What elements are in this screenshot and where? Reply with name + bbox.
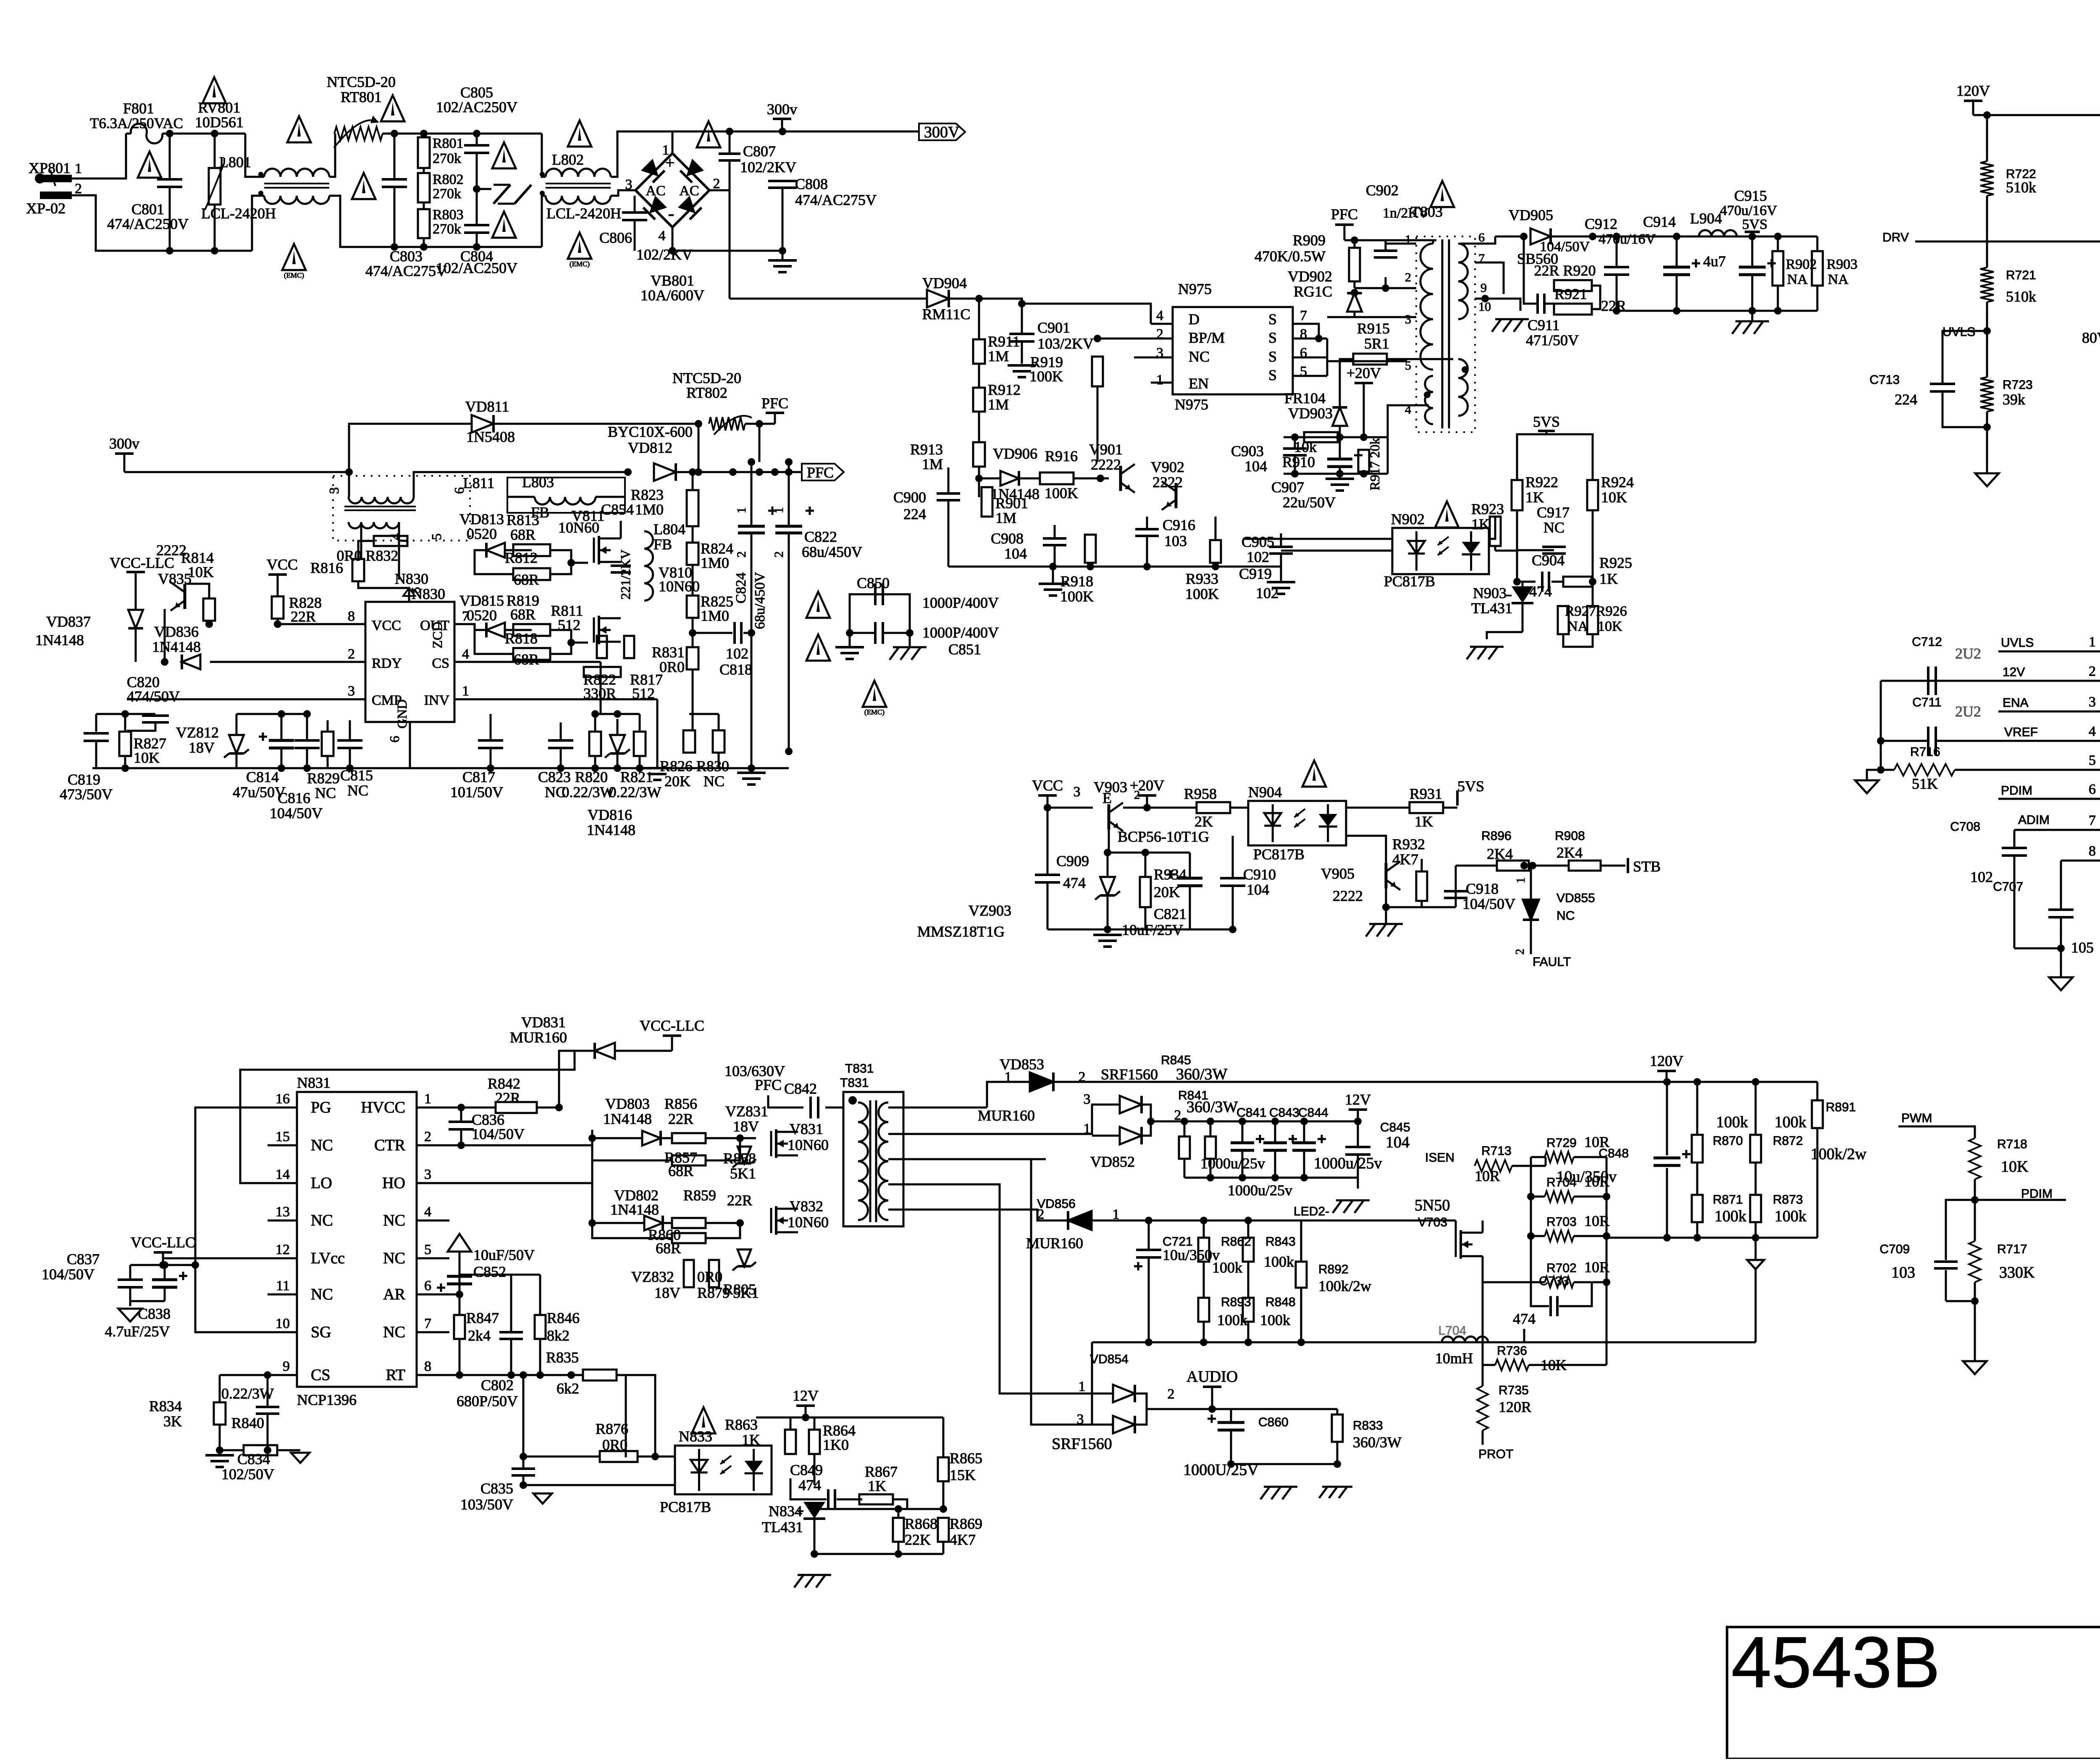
svg-text:2: 2 [424, 1129, 431, 1144]
svg-text:224: 224 [903, 506, 926, 522]
svg-text:L801: L801 [219, 154, 251, 171]
svg-text:120R: 120R [1499, 1399, 1531, 1415]
svg-text:NTC5D-20: NTC5D-20 [327, 73, 396, 90]
svg-text:2: 2 [2089, 664, 2096, 679]
svg-text:6: 6 [1478, 231, 1485, 244]
svg-text:1K: 1K [1599, 570, 1618, 587]
svg-text:R916: R916 [1045, 448, 1078, 465]
svg-text:474/50V: 474/50V [127, 688, 180, 705]
svg-text:C851: C851 [948, 641, 981, 658]
svg-text:LED2-: LED2- [1294, 1205, 1329, 1218]
svg-text:BYC10X-600: BYC10X-600 [608, 423, 693, 440]
svg-text:R840: R840 [231, 1415, 264, 1431]
svg-text:L802: L802 [552, 151, 584, 168]
svg-text:1M0: 1M0 [701, 554, 729, 571]
svg-text:R858: R858 [723, 1150, 756, 1167]
svg-text:R831: R831 [652, 644, 685, 661]
svg-text:R736: R736 [1497, 1344, 1527, 1358]
svg-text:R812: R812 [505, 549, 538, 566]
svg-text:BCP56-10T1G: BCP56-10T1G [1118, 828, 1209, 845]
svg-text:NC: NC [1557, 909, 1575, 923]
svg-text:5VS: 5VS [1457, 778, 1484, 795]
svg-text:VD815: VD815 [459, 592, 504, 609]
svg-text:PDIM: PDIM [2021, 1187, 2053, 1201]
svg-text:270k: 270k [433, 221, 461, 237]
svg-text:270k: 270k [433, 151, 461, 166]
svg-text:R931: R931 [1410, 785, 1442, 802]
svg-text:100k/2w: 100k/2w [1318, 1278, 1371, 1294]
svg-text:473/50V: 473/50V [60, 786, 113, 803]
svg-text:UVLS: UVLS [2001, 636, 2034, 650]
svg-text:EN: EN [1189, 375, 1209, 392]
svg-text:4543B: 4543B [1731, 1622, 1940, 1703]
svg-text:14: 14 [276, 1167, 290, 1182]
svg-text:R826: R826 [660, 758, 693, 774]
svg-text:V832: V832 [790, 1198, 823, 1215]
svg-text:104/50V: 104/50V [42, 1266, 94, 1283]
svg-text:RM11C: RM11C [922, 306, 971, 323]
svg-text:0R0: 0R0 [659, 659, 685, 675]
svg-text:20K: 20K [664, 773, 690, 790]
svg-text:100k: 100k [1774, 1113, 1806, 1131]
svg-text:VCC-LLC: VCC-LLC [640, 1017, 704, 1034]
svg-text:1M0: 1M0 [701, 607, 729, 624]
svg-text:5R1: 5R1 [1364, 335, 1389, 352]
svg-text:5VS: 5VS [1742, 217, 1767, 232]
svg-text:(EMC): (EMC) [284, 271, 304, 279]
svg-text:1000u/25v: 1000u/25v [1314, 1155, 1382, 1172]
svg-text:NC: NC [347, 782, 368, 799]
svg-text:2222: 2222 [1152, 474, 1183, 491]
svg-text:39k: 39k [2003, 391, 2025, 408]
svg-text:R718: R718 [1997, 1137, 2027, 1151]
svg-text:100k: 100k [1212, 1259, 1242, 1276]
svg-text:300V: 300V [924, 123, 960, 141]
svg-text:R847: R847 [466, 1310, 499, 1326]
svg-text:1M: 1M [922, 456, 943, 472]
svg-text:0R0: 0R0 [697, 1268, 722, 1285]
svg-text:FR104: FR104 [1284, 390, 1326, 407]
svg-text:INV: INV [424, 693, 450, 708]
svg-text:BP/M: BP/M [1189, 329, 1225, 346]
svg-text:HO: HO [382, 1174, 405, 1192]
svg-text:VD904: VD904 [922, 275, 967, 291]
svg-text:68R: 68R [514, 651, 539, 668]
svg-text:2: 2 [713, 176, 720, 192]
svg-text:18V: 18V [654, 1284, 680, 1301]
svg-text:1K0: 1K0 [823, 1436, 849, 1453]
svg-text:3: 3 [2089, 694, 2096, 710]
svg-text:2k4: 2k4 [468, 1327, 491, 1344]
svg-text:C835: C835 [480, 1480, 513, 1497]
svg-text:224: 224 [1895, 391, 1917, 408]
svg-text:C852: C852 [473, 1263, 506, 1280]
svg-text:C819: C819 [68, 771, 100, 788]
svg-text:10k: 10k [1294, 438, 1317, 455]
svg-text:22R: 22R [727, 1192, 752, 1209]
svg-text:R925: R925 [1599, 554, 1632, 571]
svg-text:C837: C837 [67, 1251, 100, 1268]
svg-text:VCC: VCC [372, 618, 401, 633]
svg-text:1: 1 [1515, 877, 1528, 883]
svg-text:VD854: VD854 [1090, 1352, 1129, 1366]
svg-text:10u/350v: 10u/350v [1163, 1247, 1220, 1263]
svg-text:104: 104 [1386, 1134, 1410, 1151]
svg-text:5K1: 5K1 [730, 1165, 756, 1182]
svg-text:10K: 10K [1601, 489, 1627, 506]
svg-text:NC: NC [311, 1286, 333, 1303]
svg-text:C707: C707 [1993, 880, 2023, 894]
svg-text:R876: R876 [596, 1420, 628, 1437]
svg-text:5: 5 [429, 533, 444, 540]
svg-text:L704: L704 [1438, 1324, 1467, 1338]
svg-text:VZ903: VZ903 [969, 902, 1011, 919]
svg-text:C919: C919 [1239, 565, 1272, 582]
svg-text:CS: CS [311, 1366, 330, 1384]
svg-text:E: E [1102, 790, 1112, 806]
svg-text:4u7: 4u7 [1703, 253, 1726, 270]
svg-text:R803: R803 [433, 207, 464, 223]
svg-text:102/AC250V: 102/AC250V [436, 99, 517, 115]
svg-text:C860: C860 [1258, 1415, 1289, 1429]
svg-text:RT: RT [386, 1366, 405, 1384]
svg-text:3: 3 [625, 177, 633, 192]
svg-text:3: 3 [1074, 784, 1081, 800]
svg-text:C834: C834 [237, 1451, 270, 1467]
svg-text:68R: 68R [668, 1163, 693, 1179]
svg-text:R869: R869 [950, 1515, 982, 1532]
svg-text:4: 4 [1156, 308, 1163, 323]
svg-text:1M: 1M [988, 396, 1009, 413]
svg-text:C909: C909 [1056, 853, 1089, 869]
svg-text:C905: C905 [1242, 533, 1274, 550]
svg-text:N902: N902 [1391, 511, 1425, 528]
svg-text:NC: NC [383, 1249, 405, 1267]
svg-text:-: - [668, 203, 675, 224]
svg-text:1N4148: 1N4148 [587, 821, 635, 838]
svg-text:R802: R802 [433, 172, 464, 187]
svg-text:474/AC275V: 474/AC275V [365, 262, 447, 279]
svg-text:1: 1 [2089, 634, 2096, 650]
svg-text:7: 7 [424, 1316, 431, 1331]
svg-text:C823: C823 [538, 769, 571, 785]
svg-text:PFC: PFC [807, 464, 834, 481]
svg-text:8: 8 [348, 609, 355, 624]
svg-text:R723: R723 [2003, 378, 2033, 392]
svg-text:VZ812: VZ812 [176, 724, 219, 741]
svg-text:6: 6 [2089, 782, 2096, 797]
svg-text:4.7uF/25V: 4.7uF/25V [105, 1323, 170, 1340]
svg-text:3: 3 [326, 487, 341, 494]
svg-text:VZ831: VZ831 [725, 1103, 768, 1120]
svg-text:S: S [1268, 329, 1277, 346]
svg-text:103: 103 [1164, 533, 1187, 549]
svg-text:C712: C712 [1912, 635, 1942, 649]
svg-text:103/50V: 103/50V [460, 1496, 513, 1513]
svg-text:C822: C822 [804, 528, 837, 545]
svg-text:68R: 68R [656, 1240, 681, 1257]
svg-text:1000u/25v: 1000u/25v [1228, 1182, 1292, 1199]
svg-text:R818: R818 [505, 630, 538, 647]
svg-text:C914: C914 [1643, 213, 1676, 230]
svg-text:S: S [1268, 348, 1277, 365]
svg-text:AUDIO: AUDIO [1186, 1368, 1238, 1386]
svg-text:T831: T831 [845, 1062, 874, 1076]
svg-text:100k: 100k [1716, 1113, 1748, 1131]
svg-text:10R: 10R [1584, 1134, 1609, 1150]
svg-text:RDY: RDY [372, 656, 402, 671]
svg-text:RG1C: RG1C [1294, 283, 1332, 300]
svg-text:100k: 100k [1714, 1207, 1746, 1225]
svg-text:1: 1 [772, 507, 786, 514]
svg-text:6: 6 [424, 1278, 431, 1294]
svg-text:2: 2 [75, 181, 82, 197]
svg-text:0.22/3W: 0.22/3W [221, 1385, 274, 1402]
svg-text:R923: R923 [1471, 501, 1504, 517]
svg-text:330K: 330K [1999, 1264, 2035, 1281]
svg-text:C821: C821 [1154, 905, 1186, 922]
svg-text:1: 1 [735, 507, 748, 514]
svg-text:270k: 270k [433, 186, 461, 202]
svg-text:LCL-2420H: LCL-2420H [546, 205, 621, 222]
svg-text:VCC-LLC: VCC-LLC [131, 1234, 195, 1251]
svg-text:AC: AC [679, 183, 699, 199]
svg-text:R903: R903 [1827, 257, 1858, 272]
svg-text:R833: R833 [1353, 1419, 1383, 1433]
svg-text:474: 474 [1063, 874, 1086, 891]
svg-text:C815: C815 [340, 767, 373, 784]
svg-text:C903: C903 [1231, 443, 1264, 459]
svg-text:4K7: 4K7 [950, 1531, 976, 1548]
svg-text:R721: R721 [2006, 268, 2036, 282]
svg-text:XP-02: XP-02 [26, 200, 66, 217]
svg-text:V901: V901 [1089, 441, 1123, 458]
svg-text:22u/50V: 22u/50V [1283, 494, 1336, 511]
svg-text:470u/16V: 470u/16V [1599, 231, 1656, 247]
svg-text:ENA: ENA [2003, 696, 2029, 710]
svg-text:R896: R896 [1481, 829, 1512, 843]
svg-text:10mH: 10mH [1435, 1350, 1473, 1367]
svg-text:RT801: RT801 [341, 89, 382, 105]
svg-text:V703: V703 [1418, 1215, 1447, 1229]
svg-text:T6.3A/250VAC: T6.3A/250VAC [90, 115, 183, 131]
svg-text:1: 1 [462, 683, 469, 699]
svg-text:1N5408: 1N5408 [466, 428, 515, 445]
svg-text:N975: N975 [1175, 396, 1208, 413]
svg-text:1K: 1K [742, 1431, 760, 1448]
svg-text:PC817B: PC817B [1253, 846, 1305, 863]
svg-text:VREF: VREF [2004, 725, 2038, 739]
svg-text:(EMC): (EMC) [570, 260, 590, 268]
svg-text:R703: R703 [1546, 1215, 1577, 1229]
svg-text:VD837: VD837 [46, 613, 91, 630]
svg-text:102/2KV: 102/2KV [740, 159, 796, 176]
svg-text:512: 512 [558, 617, 580, 633]
svg-text:22R: 22R [291, 608, 316, 625]
svg-text:RT802: RT802 [686, 384, 727, 401]
svg-text:22R R920: 22R R920 [1534, 262, 1596, 279]
svg-text:+20V: +20V [1347, 365, 1381, 381]
svg-text:C708: C708 [1950, 820, 1980, 834]
svg-text:R891: R891 [1826, 1100, 1856, 1114]
svg-text:NA: NA [1787, 272, 1808, 287]
svg-text:C843: C843 [1269, 1106, 1299, 1120]
svg-text:C818: C818 [719, 661, 752, 678]
svg-text:5VS: 5VS [1533, 413, 1560, 430]
svg-text:N830: N830 [395, 570, 428, 587]
svg-text:2: 2 [1405, 270, 1411, 284]
svg-text:R873: R873 [1773, 1193, 1803, 1207]
svg-text:MMSZ18T1G: MMSZ18T1G [917, 923, 1005, 940]
svg-text:360/3W: 360/3W [1176, 1066, 1228, 1083]
svg-text:NC: NC [383, 1323, 405, 1341]
svg-text:N833: N833 [679, 1428, 712, 1445]
svg-text:5: 5 [2089, 753, 2096, 768]
svg-text:C845: C845 [1380, 1121, 1410, 1134]
svg-text:C807: C807 [743, 143, 776, 160]
svg-text:120V: 120V [1650, 1052, 1683, 1069]
svg-text:100k: 100k [1264, 1253, 1294, 1270]
svg-text:VD816: VD816 [588, 806, 632, 823]
svg-text:1: 1 [75, 161, 82, 176]
svg-text:2U2: 2U2 [1955, 645, 1981, 662]
svg-text:R717: R717 [1997, 1242, 2027, 1256]
svg-text:360/3W: 360/3W [1353, 1434, 1402, 1451]
svg-text:510k: 510k [2006, 179, 2036, 196]
svg-text:LVcc: LVcc [311, 1249, 345, 1267]
svg-text:D: D [1189, 311, 1200, 328]
svg-text:10N60: 10N60 [558, 519, 599, 536]
svg-text:102/2KV: 102/2KV [636, 246, 693, 263]
svg-text:STB: STB [1633, 858, 1661, 875]
svg-text:R911: R911 [988, 333, 1020, 350]
svg-text:R922: R922 [1525, 474, 1558, 491]
svg-text:NC: NC [311, 1136, 333, 1154]
svg-text:3: 3 [348, 683, 355, 699]
svg-text:HVCC: HVCC [361, 1099, 405, 1116]
svg-text:C907: C907 [1271, 479, 1304, 496]
svg-text:C713: C713 [1869, 373, 1900, 387]
svg-text:221/2KV: 221/2KV [618, 549, 633, 599]
svg-text:PROT: PROT [1478, 1447, 1513, 1461]
svg-text:L803: L803 [522, 474, 554, 491]
svg-text:DRV: DRV [1882, 231, 1909, 244]
svg-text:NC: NC [315, 785, 336, 801]
svg-text:C911: C911 [1528, 317, 1560, 333]
svg-text:C916: C916 [1163, 517, 1195, 533]
svg-text:0.22/3W: 0.22/3W [562, 784, 614, 800]
svg-text:R892: R892 [1318, 1262, 1349, 1276]
svg-text:0520: 0520 [467, 525, 497, 542]
svg-text:2: 2 [1168, 1386, 1175, 1402]
svg-text:13: 13 [276, 1204, 290, 1220]
svg-text:R932: R932 [1392, 836, 1425, 853]
svg-text:102: 102 [1970, 869, 1993, 885]
svg-text:C904: C904 [1532, 552, 1564, 569]
svg-text:R927: R927 [1565, 604, 1596, 619]
svg-text:104: 104 [1244, 458, 1267, 475]
svg-text:104/50V: 104/50V [270, 805, 323, 821]
svg-text:4: 4 [659, 228, 666, 244]
svg-text:R915: R915 [1357, 320, 1390, 337]
svg-text:R823: R823 [631, 486, 664, 503]
svg-text:VD836: VD836 [154, 623, 199, 640]
svg-text:470K/0.5W: 470K/0.5W [1255, 248, 1326, 265]
svg-text:R834: R834 [149, 1398, 182, 1415]
svg-text:VD906: VD906 [993, 445, 1037, 462]
svg-text:ADIM: ADIM [2018, 813, 2050, 827]
svg-text:1N4148: 1N4148 [603, 1110, 652, 1127]
svg-text:22K: 22K [905, 1531, 931, 1548]
svg-text:7: 7 [1300, 308, 1307, 323]
svg-text:AC: AC [646, 183, 665, 199]
svg-text:XP801: XP801 [29, 160, 71, 176]
svg-text:R856: R856 [664, 1095, 697, 1112]
svg-text:MUR160: MUR160 [978, 1107, 1035, 1124]
svg-text:NA: NA [1828, 272, 1849, 287]
svg-text:2U2: 2U2 [1955, 703, 1981, 720]
svg-text:510k: 510k [2006, 288, 2036, 305]
svg-text:68R: 68R [514, 571, 539, 588]
svg-text:104/50V: 104/50V [472, 1126, 525, 1142]
svg-text:1M: 1M [988, 348, 1009, 365]
svg-text:R801: R801 [433, 136, 464, 151]
svg-text:C711: C711 [1912, 695, 1942, 709]
svg-text:S: S [1268, 367, 1277, 383]
svg-text:R913: R913 [910, 441, 943, 458]
svg-text:C849: C849 [790, 1462, 823, 1478]
svg-text:105: 105 [2071, 939, 2094, 956]
svg-text:2K: 2K [1194, 813, 1213, 830]
svg-text:3: 3 [1405, 312, 1411, 326]
svg-text:R729: R729 [1546, 1136, 1577, 1150]
svg-text:C803: C803 [390, 248, 423, 265]
svg-text:10N60: 10N60 [787, 1214, 829, 1231]
svg-text:R813: R813 [507, 512, 539, 528]
svg-text:NC: NC [703, 773, 724, 790]
svg-text:PC817B: PC817B [660, 1499, 711, 1515]
svg-text:102: 102 [1247, 549, 1269, 565]
svg-text:10K: 10K [1598, 619, 1622, 634]
svg-text:100K: 100K [1045, 485, 1078, 501]
svg-text:R917 20k: R917 20k [1367, 438, 1382, 490]
svg-text:R820: R820 [575, 769, 608, 785]
svg-text:R702: R702 [1546, 1261, 1577, 1275]
svg-text:R868: R868 [905, 1515, 937, 1532]
svg-text:474: 474 [1513, 1310, 1536, 1327]
svg-text:(EMC): (EMC) [864, 708, 885, 716]
svg-text:R872: R872 [1773, 1134, 1803, 1148]
svg-text:PFC: PFC [761, 395, 788, 412]
svg-text:VD905: VD905 [1509, 207, 1553, 223]
svg-text:C850: C850 [857, 575, 890, 591]
svg-text:10A/600V: 10A/600V [640, 287, 704, 304]
svg-text:R933: R933 [1186, 570, 1218, 587]
svg-text:101/50V: 101/50V [450, 784, 503, 800]
svg-text:51K: 51K [1912, 775, 1938, 792]
svg-text:10K: 10K [134, 749, 160, 766]
svg-text:PFC: PFC [1331, 206, 1358, 223]
svg-text:1K: 1K [1525, 489, 1544, 506]
svg-text:PG: PG [311, 1099, 331, 1116]
svg-text:22R: 22R [668, 1110, 693, 1127]
svg-text:R909: R909 [1293, 232, 1326, 249]
svg-text:C801: C801 [131, 201, 164, 218]
svg-text:1M: 1M [995, 509, 1016, 526]
svg-text:6k2: 6k2 [556, 1380, 579, 1397]
svg-text:N975: N975 [1178, 281, 1212, 297]
svg-text:ISEN: ISEN [1425, 1151, 1454, 1165]
